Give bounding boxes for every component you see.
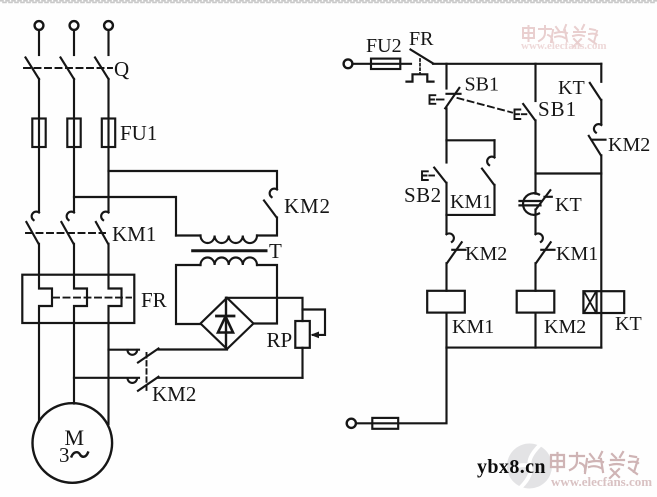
fuse FU1 a — [32, 119, 45, 148]
FR heater element 3 — [109, 275, 122, 323]
braking contact KM2 top hook — [128, 350, 138, 355]
svg-text:KM2: KM2 — [152, 382, 196, 406]
KT coil X mark — [585, 293, 596, 312]
contact KM2 interlock hook — [447, 233, 454, 241]
braking KM2 linkage dashed — [146, 353, 148, 390]
wire phase3 KM1 to FR — [107, 244, 109, 275]
FR actuator dotted link — [419, 59, 421, 74]
wire KT contact down — [534, 210, 536, 234]
diode triangle — [218, 317, 233, 333]
contact KM1 aux blade — [482, 169, 494, 185]
wire phase2 Q to KM1 — [73, 79, 75, 212]
coil KM2 — [517, 291, 555, 313]
svg-text:SB2: SB2 — [404, 183, 442, 207]
wire to KM2 interlock — [445, 215, 447, 234]
terminal L3 — [104, 21, 113, 30]
wire RP bottom — [301, 348, 303, 378]
contactor KM1 pole2 blade — [61, 222, 73, 244]
motor M circle — [33, 403, 113, 483]
wire rail to SB1 NO — [534, 64, 536, 101]
wire blade to RP bottom — [159, 377, 303, 379]
wire bottom rail down — [356, 348, 446, 424]
control terminal bottom — [347, 419, 356, 428]
SB1 linkage dashed diagonal — [458, 98, 513, 113]
switch Q pole 1 blade — [26, 58, 40, 80]
watermark logo circle — [507, 444, 552, 489]
svg-text:Q: Q — [114, 57, 129, 81]
parallel block bottom wire — [447, 214, 495, 216]
wire phase3 FR to motor — [107, 323, 109, 424]
control bottom rail — [447, 347, 602, 349]
svg-text:KM1: KM1 — [112, 222, 156, 246]
wire phase1 FR to motor — [38, 323, 40, 422]
button SB1 NC seat — [447, 93, 461, 95]
fuse FU2 — [371, 59, 400, 69]
wire secondary left to bridge — [176, 265, 201, 324]
svg-text:KM1: KM1 — [452, 316, 494, 338]
svg-text:KM1: KM1 — [556, 243, 598, 265]
contactor KM2 power blade — [264, 201, 277, 218]
wire SB1 NO down — [534, 120, 536, 193]
wire L2 drop — [73, 30, 75, 55]
wire SB1 to parallel block — [445, 108, 447, 140]
diode lead — [225, 298, 227, 349]
RP wiper arrow — [311, 332, 320, 339]
wire L1 drop — [38, 30, 40, 55]
label 3~ — [72, 452, 89, 457]
contact KM1 interlock hook — [536, 233, 543, 241]
svg-text:RP: RP — [267, 328, 293, 352]
button SB1 NO actuator E — [515, 110, 521, 120]
svg-text:www.elecfans.com: www.elecfans.com — [521, 40, 607, 52]
contactor KM1 pole2 hook — [67, 212, 74, 220]
svg-text:T: T — [269, 239, 282, 263]
FR heater element 1 — [39, 275, 52, 323]
switch Q pole 2 blade — [61, 58, 75, 80]
KM2 interlock seat bar — [452, 249, 465, 251]
svg-text:KM2: KM2 — [544, 316, 586, 338]
wire terminal to FU2 — [353, 63, 412, 65]
wire right branch to KT coil — [600, 155, 602, 347]
wire primary left — [176, 234, 201, 236]
wire secondary right to bridge — [254, 265, 278, 324]
wire phase3 to KM2 branch — [109, 171, 278, 189]
wire phase1 KM1 to FR — [38, 244, 40, 275]
svg-text:FR: FR — [409, 28, 434, 50]
KT coil divider — [596, 291, 598, 313]
border dotted top — [0, 0, 657, 2]
braking contact KM2 bottom blade — [138, 377, 159, 391]
contactor KM1 linkage dashed — [26, 232, 105, 234]
FR contact blade — [411, 50, 434, 64]
FR heater element 2 — [74, 275, 87, 323]
RP wiper tap — [303, 310, 326, 335]
fuse FU1 b — [67, 119, 80, 148]
FR contact actuator — [407, 74, 434, 81]
wire phase2 to transformer primary — [74, 197, 176, 236]
svg-text:KM1: KM1 — [450, 191, 492, 213]
KT delay seat tick — [545, 196, 552, 198]
transformer T primary coil — [201, 236, 258, 244]
button SB1 NC blade — [445, 88, 459, 108]
svg-text:3: 3 — [59, 443, 70, 467]
button SB1 NC actuator E — [430, 95, 436, 104]
wire KM2 to primary — [257, 218, 277, 236]
button SB1 NO blade — [523, 104, 535, 120]
contact KM1 aux hook — [487, 157, 494, 165]
wire to KM1 coil — [445, 263, 447, 291]
svg-text:KM2: KM2 — [465, 243, 507, 265]
svg-text:SB1: SB1 — [538, 97, 577, 121]
contactor KM1 pole1 hook — [32, 212, 39, 220]
thermal relay FR box — [22, 275, 134, 323]
KM2 NC seat bar — [592, 139, 606, 141]
svg-text:KM2: KM2 — [284, 194, 331, 218]
contactor KM1 pole1 blade — [26, 222, 38, 244]
parallel block top wire — [447, 139, 495, 141]
svg-text:ybx8.cn: ybx8.cn — [477, 456, 546, 478]
watermark chinese characters — [551, 452, 638, 478]
rectifier bridge — [201, 298, 254, 349]
coil KT — [583, 291, 624, 313]
KT delay symbol bars — [520, 201, 541, 205]
braking contact KM2 top blade — [138, 349, 159, 363]
svg-text:www.elecfans.com: www.elecfans.com — [551, 474, 652, 489]
control terminal top — [344, 59, 353, 68]
contact KM2 NC blade — [589, 136, 601, 155]
transformer core — [193, 249, 266, 252]
button SB2 blade — [434, 168, 446, 183]
wire blade to bridge bottom — [159, 348, 228, 350]
diode bar — [217, 315, 235, 318]
contactor KM1 pole3 blade — [96, 222, 108, 244]
wire phase1 Q to KM1 — [38, 79, 40, 212]
control top rail — [433, 63, 601, 65]
wire rail to SB1 NC — [445, 64, 447, 89]
KT delay symbol arc — [523, 193, 539, 215]
svg-text:KT: KT — [555, 194, 582, 216]
contact KT NO blade — [590, 83, 601, 100]
wire phase2 FR to motor — [73, 323, 75, 404]
wire phase3 Q to KM1 — [107, 79, 109, 212]
svg-text:SB1: SB1 — [465, 74, 499, 96]
wire KM1 aux bottom — [493, 185, 495, 215]
terminal L1 — [35, 21, 44, 30]
transformer T secondary coil — [201, 257, 258, 265]
wire KT NO down — [600, 100, 602, 125]
FR linkage dashed — [53, 297, 131, 299]
tee wire middle to right branch — [536, 172, 602, 174]
wire KM2 coil to rail — [534, 313, 536, 348]
wire L3 drop — [107, 30, 109, 55]
KM1 interlock seat bar — [541, 249, 554, 251]
wire to SB2 — [445, 140, 447, 162]
KT delay contact blade — [536, 190, 551, 209]
wire DC+ to RP — [227, 298, 303, 321]
terminal L2 — [70, 21, 79, 30]
svg-text:FU2: FU2 — [366, 35, 402, 57]
contactor KM1 pole3 hook — [101, 212, 108, 220]
watermark top chinese characters — [523, 25, 597, 47]
wire to KM1 aux — [493, 140, 495, 157]
rheostat RP box — [295, 321, 310, 348]
contact KM2 NC hook — [594, 124, 601, 132]
svg-text:KT: KT — [558, 77, 585, 99]
braking contact KM2 top stub — [109, 349, 140, 351]
svg-text:FR: FR — [141, 288, 167, 312]
wire KM1 coil to rail — [445, 313, 447, 348]
svg-text:KM2: KM2 — [608, 134, 650, 156]
switch Q pole 3 blade — [95, 58, 109, 80]
contact KM2 interlock blade — [447, 242, 462, 263]
braking contact KM2 bottom stub — [74, 377, 139, 379]
wire to KM2 coil — [534, 263, 536, 291]
switch Q linkage dashed — [24, 67, 112, 69]
coil KM1 — [427, 291, 465, 313]
SB1 NO actuator dash — [522, 113, 527, 115]
wire SB2 to bottom — [445, 183, 447, 215]
wire phase2 KM1 to FR — [73, 244, 75, 275]
svg-text:KT: KT — [615, 313, 642, 335]
contact KM1 interlock blade — [536, 242, 551, 263]
contactor KM2 power hook — [270, 189, 277, 197]
SB2 actuator dash — [429, 175, 434, 177]
wire rail corner right branch — [600, 64, 602, 82]
button SB2 actuator E — [422, 171, 428, 180]
svg-text:FU1: FU1 — [120, 121, 157, 145]
fuse FU1 c — [102, 119, 115, 148]
watermark logo swoosh — [512, 445, 540, 487]
fuse bottom — [372, 418, 398, 429]
braking contact KM2 bottom hook — [128, 378, 138, 383]
SB1 actuator dash — [437, 99, 444, 101]
